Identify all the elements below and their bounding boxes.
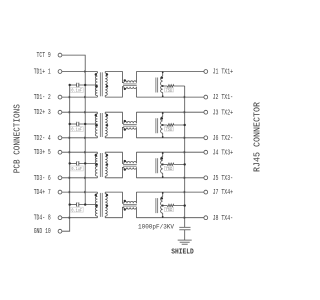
capacitor C1 0.1uF straight plate <box>78 83 80 87</box>
wire T2 secondary bottom to choke <box>105 127 124 137</box>
capacitor C4 0.1uF straight plate <box>78 202 80 206</box>
svg-text:J1 TX1+: J1 TX1+ <box>213 69 234 77</box>
junction dot TCT bus ch2 <box>84 123 86 125</box>
transformer T2 primary center-tap dot <box>96 124 98 126</box>
right header: RJ45 CONNECTOR <box>253 101 263 172</box>
wire choke to J1 <box>136 71 203 73</box>
pin TD3- terminal <box>58 176 62 180</box>
svg-text:TD4+ 7: TD4+ 7 <box>34 189 51 197</box>
resistor R2 75ohm <box>167 124 184 127</box>
capacitor C3 0.1uF straight plate <box>78 161 80 165</box>
choke L3 bottom winding <box>124 167 137 169</box>
junction TCT bus x TD1+ <box>84 70 87 73</box>
wire choke to J7 <box>136 191 203 193</box>
termination coil ch2 core <box>155 118 157 133</box>
pin TD1- terminal <box>58 95 62 99</box>
wire TD4- to transformer <box>62 217 97 219</box>
wire T2 secondary top to choke <box>105 112 124 123</box>
svg-text:75Ω: 75Ω <box>165 127 172 132</box>
choke L2 polarity dots <box>124 120 126 122</box>
wire TD2- to transformer <box>62 137 97 139</box>
wire T4 secondary bottom to choke <box>105 207 124 217</box>
pin J4 terminal <box>204 150 208 154</box>
choke L4 top winding <box>124 201 137 203</box>
svg-text:TD2+ 3: TD2+ 3 <box>34 109 51 117</box>
transformer T4 primary polarity dot <box>95 194 97 196</box>
capacitor C2 0.1uF curved plate <box>75 122 78 126</box>
wire choke to J3 <box>136 111 203 113</box>
label R2 75 ohm box <box>164 127 173 131</box>
wire tap to resistor R1 <box>163 85 168 87</box>
resistor R4 75ohm <box>167 204 184 207</box>
label C1 value box <box>70 88 83 93</box>
wire termination bus <box>184 86 186 227</box>
pin TD4- terminal <box>58 216 62 220</box>
transformer T4 primary center-tap dot <box>96 205 98 207</box>
svg-text:TD3+ 5: TD3+ 5 <box>34 149 51 157</box>
wire T1 secondary top to choke <box>105 72 124 83</box>
junction term bus x J line bottom ch3 <box>184 177 187 180</box>
choke L1 core <box>123 83 137 85</box>
transformer T3 secondary winding <box>105 154 107 176</box>
svg-text:75Ω: 75Ω <box>165 208 172 213</box>
svg-text:0.1uF: 0.1uF <box>71 128 82 133</box>
termination coil ch1 <box>162 72 164 77</box>
svg-text:J8 TX4-: J8 TX4- <box>213 215 234 223</box>
wire TD2+ to transformer <box>62 111 97 113</box>
termination coil ch1 dots <box>162 72 164 74</box>
svg-text:J2 TX1-: J2 TX1- <box>213 94 234 102</box>
svg-text:RJ45 CONNECTOR: RJ45 CONNECTOR <box>253 101 263 172</box>
capacitor C4 0.1uF curved plate <box>75 202 78 206</box>
junction dot cap bus ch2 <box>69 123 71 125</box>
junction dot TCT bus ch1 <box>84 84 86 86</box>
pin J3 terminal <box>204 110 208 114</box>
svg-text:J7 TX4+: J7 TX4+ <box>213 189 234 197</box>
choke L4 polarity dots <box>124 200 126 202</box>
wire tap to resistor R3 <box>163 163 168 165</box>
label R4 75 ohm box <box>164 207 173 211</box>
transformer T4 primary winding <box>95 194 97 205</box>
choke L1 polarity dots <box>124 79 126 81</box>
termination coil ch2 <box>162 112 164 117</box>
ground symbol (shield) <box>178 239 192 241</box>
svg-text:J4 TX3+: J4 TX3+ <box>213 149 234 157</box>
pin J7 terminal <box>204 190 208 194</box>
junction dot cap bus ch4 <box>69 203 71 205</box>
junction dot TCT bus ch3 <box>84 162 86 164</box>
label C3 value box <box>70 166 83 171</box>
wire TD3+ to transformer <box>62 151 97 153</box>
junction cap bus x TD2- <box>69 137 72 140</box>
transformer T2 primary polarity dot <box>95 114 97 116</box>
junction TCT bus x TD1- <box>84 96 87 99</box>
transformer T1 primary center-tap dot <box>96 85 98 87</box>
transformer T3 secondary polarity dots <box>106 154 108 156</box>
choke L4 bottom winding <box>124 207 137 209</box>
wire choke to J2 <box>136 96 203 98</box>
svg-text:75Ω: 75Ω <box>165 167 172 172</box>
transformer T2 core <box>99 113 101 137</box>
choke L1 top winding <box>124 81 137 83</box>
wire choke to J8 <box>136 217 203 219</box>
svg-text:TCT 9: TCT 9 <box>37 52 51 60</box>
termination coil ch4 core <box>155 198 157 213</box>
junction cap bus x TD4+ <box>69 191 72 194</box>
wire T3 secondary bottom to choke <box>105 167 124 177</box>
capacitor C1 0.1uF wire <box>70 84 76 86</box>
pin TD4+ terminal <box>58 190 62 194</box>
transformer T3 core <box>99 153 101 177</box>
svg-text:0.1uF: 0.1uF <box>71 167 82 172</box>
transformer T1 secondary winding <box>105 73 107 95</box>
label C2 value box <box>70 127 83 132</box>
transformer T1 primary polarity dot <box>95 73 97 75</box>
wire capacitor C4 to transformer T4 center tap <box>79 204 98 206</box>
svg-text:TD1- 2: TD1- 2 <box>34 94 51 102</box>
wire choke to J4 <box>136 151 203 153</box>
junction dot bus ch4 resistor <box>184 204 186 206</box>
junction dot cap bus ch3 <box>69 162 71 164</box>
wire GND bus (capacitor common) <box>62 85 70 231</box>
junction term bus x J line top ch2 <box>184 111 187 114</box>
pin GND 10 terminal <box>58 229 62 233</box>
transformer T1 core <box>99 72 101 96</box>
termination coil ch4 dots <box>162 192 164 194</box>
svg-text:TD3- 6: TD3- 6 <box>34 175 51 183</box>
label C4 value box <box>70 207 83 212</box>
pin TCT 9 terminal <box>58 53 62 57</box>
junction dot bus ch3 resistor <box>184 163 186 165</box>
svg-text:J3 TX2+: J3 TX2+ <box>213 109 234 117</box>
termination coil ch3 <box>162 152 164 157</box>
pin TD2- terminal <box>58 136 62 140</box>
choke L3 core <box>123 164 137 166</box>
junction TCT bus x TD3- <box>84 177 87 180</box>
wire capacitor C1 to transformer T1 center tap <box>79 84 98 86</box>
choke L1 bottom winding <box>124 87 137 89</box>
wire TD1+ to transformer <box>62 71 97 73</box>
transformer T3 primary center-tap dot <box>96 163 98 165</box>
transformer T1 primary winding <box>95 73 97 85</box>
svg-text:J6 TX2-: J6 TX2- <box>213 135 234 143</box>
wire tap to resistor R4 <box>163 205 168 207</box>
junction term bus x J line top ch3 <box>184 151 187 154</box>
junction cap bus x TD2+ <box>69 111 72 114</box>
junction cap bus x TD3+ <box>69 151 72 154</box>
wire choke to J6 <box>136 137 203 139</box>
junction cap bus x TD3- <box>69 177 72 180</box>
wire tap to resistor R2 <box>163 124 168 126</box>
capacitor C2 0.1uF straight plate <box>78 122 80 126</box>
termination coil ch2 dots <box>162 112 164 114</box>
wire TD1- to transformer <box>62 96 97 98</box>
termination coil ch3 core <box>155 158 157 173</box>
capacitor 1000pF/3KV plates <box>179 226 190 228</box>
transformer T2 primary winding <box>95 114 97 124</box>
pin J5 terminal <box>204 176 208 180</box>
junction term bus x J line bottom ch2 <box>184 137 187 140</box>
svg-text:TD4- 8: TD4- 8 <box>34 215 51 223</box>
pin TD3+ terminal <box>58 150 62 154</box>
resistor R3 75ohm <box>167 163 184 166</box>
wire T3 secondary top to choke <box>105 152 124 163</box>
capacitor C3 0.1uF wire <box>70 162 76 164</box>
junction TCT bus x TD2+ <box>84 111 87 114</box>
svg-text:TD1+ 1: TD1+ 1 <box>34 69 51 77</box>
svg-text:1000pF/3KV: 1000pF/3KV <box>138 224 174 231</box>
junction dot bus ch2 resistor <box>184 124 186 126</box>
pin J6 terminal <box>204 136 208 140</box>
svg-text:0.1uF: 0.1uF <box>71 89 82 94</box>
junction term bus x J line top ch4 <box>184 191 187 194</box>
svg-text:0.1uF: 0.1uF <box>71 208 82 213</box>
wire TD4+ to transformer <box>62 191 97 193</box>
junction term bus x J line bottom ch4 <box>184 216 187 219</box>
wire TD3- to transformer <box>62 177 97 179</box>
junction dot TCT bus ch4 <box>84 203 86 205</box>
capacitor C1 0.1uF curved plate <box>75 83 78 87</box>
pin J2 terminal <box>204 95 208 99</box>
label R1 75 ohm box <box>164 88 173 92</box>
wire choke L3 outputs <box>135 152 137 163</box>
capacitor C2 0.1uF wire <box>70 123 76 125</box>
capacitor C3 0.1uF curved plate <box>75 161 78 165</box>
choke L2 core <box>123 124 137 126</box>
svg-text:PCB CONNECTIONS: PCB CONNECTIONS <box>13 104 23 173</box>
choke L4 core <box>123 204 137 206</box>
svg-text:TD2- 4: TD2- 4 <box>34 135 51 143</box>
wire capacitor to shield ground <box>184 230 186 240</box>
wire capacitor C3 to transformer T3 center tap <box>79 162 98 164</box>
svg-text:75Ω: 75Ω <box>165 88 172 93</box>
resistor R1 75ohm <box>167 85 184 88</box>
junction dot cap bus ch1 <box>69 84 71 86</box>
transformer T4 secondary winding <box>105 194 107 216</box>
choke L2 bottom winding <box>124 127 137 129</box>
transformer T4 secondary polarity dots <box>106 194 108 196</box>
junction TCT bus x TD4+ <box>84 191 87 194</box>
pin J1 terminal <box>204 70 208 74</box>
termination coil ch1 core <box>155 78 157 93</box>
junction TCT bus x TD3+ <box>84 151 87 154</box>
transformer T3 primary polarity dot <box>95 154 97 156</box>
label R3 75 ohm box <box>164 166 173 170</box>
wire T1 secondary bottom to choke <box>105 87 124 97</box>
wire T4 secondary top to choke <box>105 192 124 203</box>
junction TCT bus x TD2- <box>84 137 87 140</box>
junction cap bus x TD4- <box>69 216 72 219</box>
wire TCT center-tap bus (vertical) <box>84 85 86 205</box>
svg-text:SHIELD: SHIELD <box>171 248 194 256</box>
transformer T2 secondary winding <box>105 114 107 136</box>
svg-text:GND 10: GND 10 <box>34 228 51 236</box>
termination coil ch3 dots <box>162 152 164 154</box>
wire capacitor C2 to transformer T2 center tap <box>79 123 98 125</box>
choke L3 polarity dots <box>124 160 126 162</box>
transformer T2 secondary polarity dots <box>106 114 108 116</box>
wire choke to J5 <box>136 177 203 179</box>
pin TD2+ terminal <box>58 110 62 114</box>
junction term bus x J line bottom ch1 <box>184 96 187 99</box>
transformer T4 core <box>99 193 101 217</box>
left header: PCB CONNECTIONS <box>13 104 23 173</box>
wire choke L1 outputs <box>135 72 137 83</box>
svg-text:J5 TX3-: J5 TX3- <box>213 175 234 183</box>
wire choke L2 outputs <box>135 112 137 123</box>
transformer T1 secondary polarity dots <box>106 73 108 75</box>
pin TD1+ terminal <box>58 70 62 74</box>
wire choke L4 outputs <box>135 192 137 203</box>
junction cap bus x TD1- <box>69 96 72 99</box>
capacitor C4 0.1uF wire <box>70 204 76 206</box>
pin J8 terminal <box>204 216 208 220</box>
choke L2 top winding <box>124 122 137 124</box>
termination coil ch4 <box>162 192 164 197</box>
transformer T3 primary winding <box>95 154 97 164</box>
choke L3 top winding <box>124 162 137 164</box>
wire TCT to center-tap bus <box>62 55 85 85</box>
